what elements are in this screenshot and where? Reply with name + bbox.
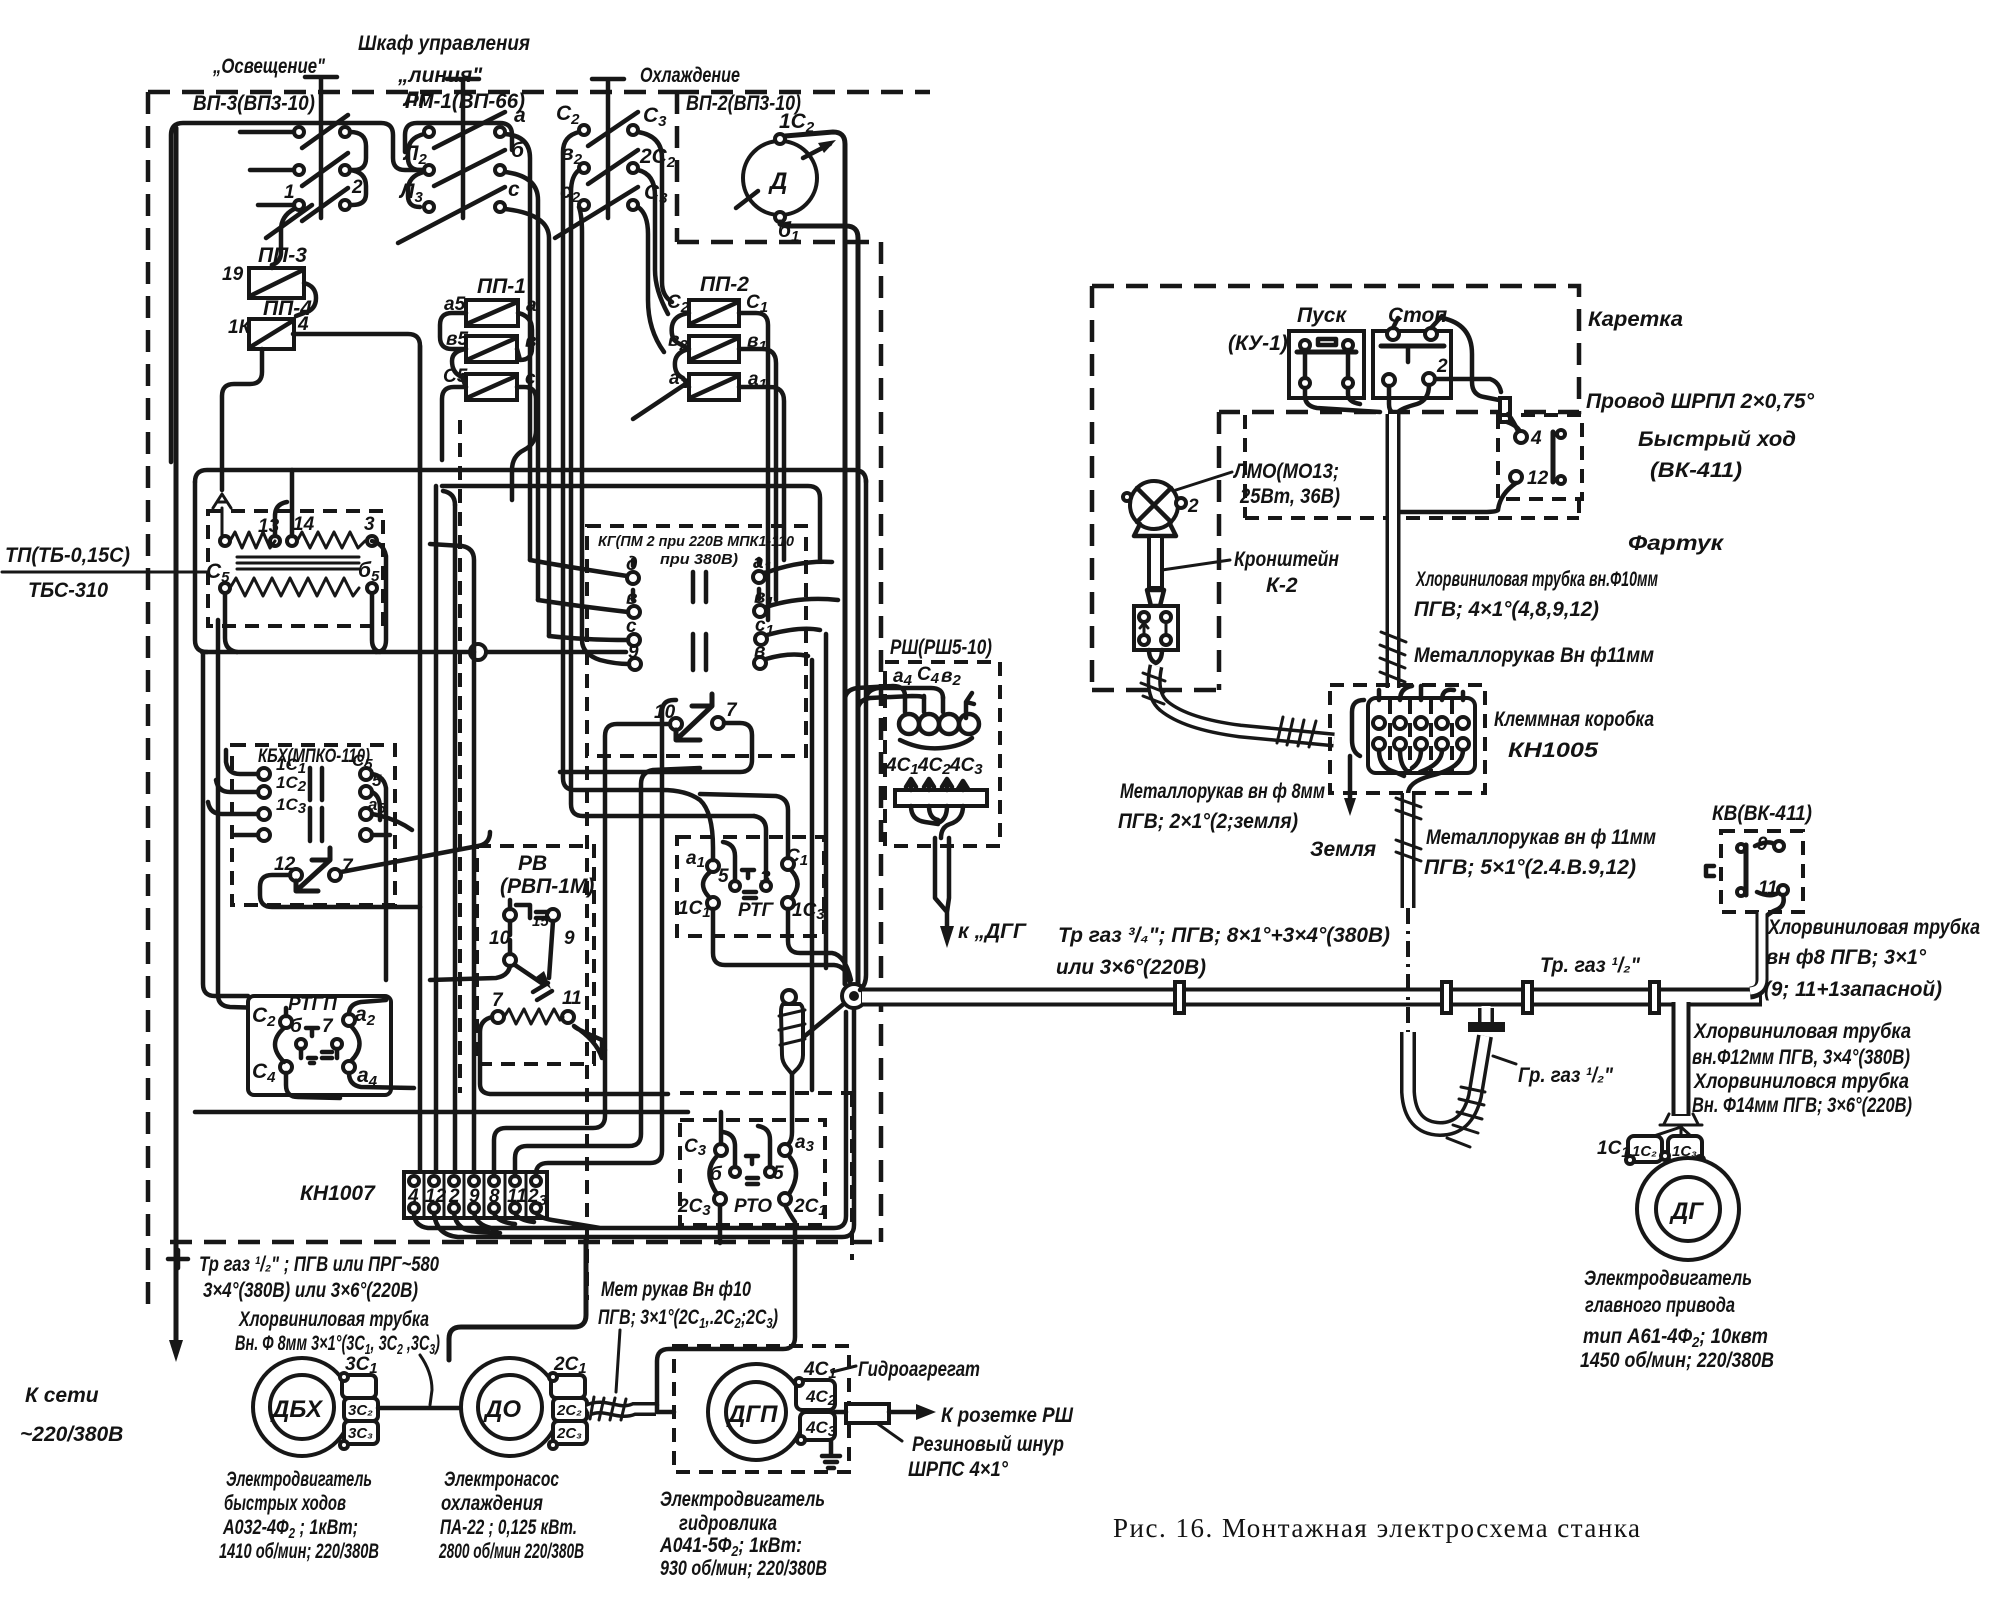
svg-text:Гр. газ ¹/₂": Гр. газ ¹/₂" [1518, 1064, 1614, 1087]
svg-text:2: 2 [448, 1186, 460, 1207]
KG movable bars [693, 572, 706, 670]
wire sw1 right outputs [350, 132, 366, 205]
svg-text:ПГВ; 5×1°(2.4.В.9,12): ПГВ; 5×1°(2.4.В.9,12) [1424, 856, 1636, 879]
svg-text:Хлорвиниловая трубка вн.Ф10мм: Хлорвиниловая трубка вн.Ф10мм [1415, 568, 1658, 591]
svg-text:вн ф8 ПГВ; 3×1°: вн ф8 ПГВ; 3×1° [1766, 946, 1927, 969]
svg-text:в1: в1 [747, 331, 767, 355]
tube stub to pipe tee [1478, 1008, 1494, 1030]
svg-text:а1: а1 [686, 848, 705, 871]
wires into RSh from left [845, 686, 943, 984]
KBX contact rows [258, 768, 372, 841]
svg-text:К-2: К-2 [1266, 574, 1298, 597]
wire sw3 right outputs down to PP-2 [638, 132, 672, 352]
Zemlya earth wire [1348, 756, 1353, 800]
KG left feed curves [530, 560, 629, 664]
svg-text:Стоп: Стоп [1388, 304, 1447, 327]
svg-text:7: 7 [342, 856, 354, 877]
svg-text:Тр. газ ¹/₂": Тр. газ ¹/₂" [1540, 954, 1641, 977]
wires PP-1 left loops [440, 313, 466, 460]
button Stop [1373, 316, 1451, 398]
svg-text:(КУ-1): (КУ-1) [1228, 332, 1288, 355]
svg-text:19: 19 [222, 264, 244, 285]
DG terminal caps [1626, 1127, 1704, 1164]
svg-text:Быстрый ход: Быстрый ход [1638, 428, 1796, 451]
D arrow [803, 144, 830, 158]
sw1 left stubs [240, 132, 294, 205]
terminal box KN1005 dashed [1330, 685, 1485, 793]
svg-text:гидровлика: гидровлика [679, 1512, 777, 1535]
relay RTG box [677, 837, 824, 936]
corridor verticals B top hooks [430, 491, 474, 652]
svg-text:а3: а3 [795, 1132, 815, 1155]
switch SW1 row2 [294, 153, 350, 186]
horizontal bus y652 with node [202, 650, 626, 655]
svg-text:Пуск: Пуск [1297, 304, 1347, 327]
svg-text:а: а [526, 295, 537, 316]
motor DBX [253, 1358, 378, 1456]
wires PP-2 right outputs down [739, 313, 784, 620]
dashed partition x=460 (control cabinet inner) [460, 420, 587, 1300]
fuse PP-1 v [466, 336, 517, 362]
RV resistor 7-11 [492, 988, 582, 1024]
button Pusk [1289, 331, 1364, 398]
svg-text:2: 2 [351, 177, 363, 198]
wire sw2 outputs right going down [505, 134, 549, 636]
svg-text:Рис. 16. Монтажная электросхем: Рис. 16. Монтажная электросхема станка [1113, 1513, 1642, 1543]
connector small [1500, 398, 1510, 422]
wires buttons down to tube [1305, 385, 1429, 412]
tube KV down to pipe [1750, 914, 1762, 993]
leader from tube text to wire [420, 1355, 432, 1405]
svg-text:Тр газ ³/₄"; ПГВ; 8×1°+3×4°(38: Тр газ ³/₄"; ПГВ; 8×1°+3×4°(380В) [1058, 924, 1390, 947]
svg-text:„Освещение": „Освещение" [212, 55, 326, 78]
carriage (Karetka) dashed box [1092, 286, 1579, 690]
svg-text:КГ(ПМ 2 при 220В МПК1-110: КГ(ПМ 2 при 220В МПК1-110 [598, 533, 795, 550]
svg-text:3С1: 3С1 [345, 1354, 378, 1377]
svg-text:25Вт, 36В): 25Вт, 36В) [1239, 485, 1340, 508]
svg-text:Вн. Ф 8мм 3×1°(3С1, 3С2 ,3С3): Вн. Ф 8мм 3×1°(3С1, 3С2 ,3С3) [235, 1332, 440, 1358]
svg-text:~220/380В: ~220/380В [20, 1423, 123, 1446]
switch SW2 row2 [424, 150, 505, 186]
svg-text:КН1005: КН1005 [1508, 739, 1598, 762]
svg-text:а1: а1 [748, 369, 767, 393]
svg-text:б5: б5 [358, 559, 380, 585]
wire D top to long vertical [785, 132, 845, 984]
motor DG [1637, 1158, 1739, 1260]
main pipe horizontal [861, 988, 1762, 1007]
svg-text:Металлорукав Вн ф11мм: Металлорукав Вн ф11мм [1414, 644, 1654, 667]
svg-text:Каретка: Каретка [1588, 308, 1683, 331]
svg-text:Вн. Ф14мм ПГВ; 3×6°(220В): Вн. Ф14мм ПГВ; 3×6°(220В) [1692, 1094, 1912, 1117]
leader Kronstein [1162, 560, 1230, 570]
D slash [736, 191, 758, 208]
svg-text:Электронасос: Электронасос [444, 1468, 559, 1491]
KG contact row v-v1 [628, 605, 766, 618]
svg-text:д: д [626, 554, 638, 575]
KN1007 bottom fan-out [414, 1010, 854, 1237]
switch group 1 pole bar [305, 77, 337, 218]
svg-text:РШ(РШ5-10): РШ(РШ5-10) [890, 636, 992, 659]
dashed partition near RSh [680, 1093, 852, 1260]
svg-text:4: 4 [407, 1186, 419, 1207]
svg-text:Охлаждение: Охлаждение [640, 64, 740, 87]
svg-text:Резиновый шнур: Резиновый шнур [912, 1433, 1064, 1456]
svg-text:9: 9 [564, 928, 575, 949]
contactor KBX dashed box [232, 745, 395, 905]
svg-text:С4: С4 [917, 664, 940, 687]
svg-text:1С1: 1С1 [1597, 1138, 1630, 1161]
svg-text:ПП-3: ПП-3 [258, 244, 307, 267]
svg-text:14: 14 [293, 514, 315, 535]
svg-text:РТО: РТО [734, 1196, 772, 1217]
svg-text:С5: С5 [352, 751, 373, 773]
switch SW1 row1 [294, 115, 350, 148]
cable gland below pipe [779, 990, 846, 1145]
RTO wires [657, 1112, 795, 1405]
svg-text:С3: С3 [684, 1136, 707, 1159]
terminal block KN1007 [404, 1172, 548, 1218]
wire hose to riser [657, 1405, 674, 1412]
svg-text:Электродвигатель: Электродвигатель [1584, 1267, 1752, 1290]
cabinet outer dashed border (left block) [148, 92, 881, 1308]
KBX right hooks [372, 774, 412, 980]
svg-text:3С₂: 3С₂ [348, 1402, 373, 1419]
svg-text:4С2: 4С2 [917, 755, 951, 778]
svg-text:1К: 1К [228, 317, 252, 338]
SEC4 [1092, 286, 1980, 1372]
svg-text:Металлорукав вн ф 11мм: Металлорукав вн ф 11мм [1426, 826, 1656, 849]
SEC1 [2, 110, 866, 1145]
svg-text:с: с [626, 616, 637, 637]
svg-text:ДО: ДО [483, 1396, 521, 1423]
svg-text:Лм: Лм [402, 88, 434, 111]
svg-text:к „ДГГ: к „ДГГ [958, 920, 1027, 943]
svg-text:ПГВ; 2×1°(2;земля): ПГВ; 2×1°(2;земля) [1118, 810, 1298, 833]
wire PP3 to PP4 [272, 265, 316, 316]
leader Gr gaz [1493, 1056, 1516, 1064]
svg-text:ПП-2: ПП-2 [700, 273, 749, 296]
left border vertical wire K seti [174, 128, 179, 1342]
horizontal bus y470 [195, 470, 866, 482]
svg-text:3С₃: 3С₃ [348, 1425, 373, 1442]
fuse PP-2 v [689, 336, 739, 362]
switch SW3 row2 [579, 150, 638, 184]
svg-text:Шкаф управления: Шкаф управления [358, 32, 530, 55]
KBX aux Z contact [274, 848, 354, 891]
transformer earth [213, 494, 231, 541]
KG contact row c-c1 [628, 633, 767, 646]
svg-text:К сети: К сети [25, 1384, 99, 1407]
motor D circle [743, 141, 817, 215]
hose KN1005 down [1401, 793, 1416, 908]
transformer core [237, 557, 359, 569]
DGP earth [822, 1440, 840, 1468]
svg-text:Тр газ ¹/₂" ; ПГВ или ПРГ~580: Тр газ ¹/₂" ; ПГВ или ПРГ~580 [199, 1253, 439, 1276]
KN1005 bottom merge [1379, 750, 1463, 794]
svg-text:2С2: 2С2 [639, 145, 676, 171]
svg-text:(РВП-1М): (РВП-1М) [500, 875, 594, 898]
RV lower contact [504, 921, 553, 1000]
svg-text:С2: С2 [556, 102, 580, 128]
svg-text:Земля: Земля [1310, 838, 1376, 861]
svg-text:10: 10 [489, 928, 511, 949]
corridor verticals A [420, 346, 474, 1172]
RTG wires down [713, 909, 851, 982]
motor DGP [708, 1364, 837, 1460]
transformer TP dashed box [208, 511, 383, 626]
svg-text:Хлорвиниловся трубка: Хлорвиниловся трубка [1693, 1070, 1909, 1093]
KG Z wires [560, 723, 752, 1050]
svg-text:быстрых ходов: быстрых ходов [224, 1492, 346, 1515]
svg-text:Электродвигатель: Электродвигатель [660, 1488, 825, 1511]
svg-text:ШРПС 4×1°: ШРПС 4×1° [908, 1458, 1009, 1481]
svg-text:3: 3 [364, 514, 375, 535]
dashed box VP-2 (cooling switch enclosure) [677, 92, 930, 1242]
svg-text:Кронштейн: Кронштейн [1234, 548, 1339, 571]
lamp LMO [1123, 481, 1186, 663]
DG flare fitting [1660, 1114, 1702, 1125]
svg-text:ПА-22 ; 0,125 кВт.: ПА-22 ; 0,125 кВт. [440, 1516, 577, 1539]
inner rounded box around lighting switch [171, 123, 424, 462]
svg-text:„линия": „линия" [397, 64, 483, 87]
svg-text:2: 2 [1187, 496, 1199, 517]
svg-text:Провод ШРПЛ 2×0,75°: Провод ШРПЛ 2×0,75° [1586, 390, 1815, 413]
svg-text:2С₃: 2С₃ [556, 1425, 582, 1442]
wires PP-1 right outputs [512, 313, 536, 500]
fuse PP-2 a [689, 374, 739, 400]
svg-text:Хлорвиниловая трубка: Хлорвиниловая трубка [238, 1308, 429, 1331]
svg-text:Металлорукав вн ф 8мм: Металлорукав вн ф 8мм [1120, 780, 1325, 803]
svg-text:ПП-1: ПП-1 [477, 275, 526, 298]
SEC3 [20, 636, 1762, 1580]
junction node [842, 984, 866, 1008]
svg-text:9: 9 [1757, 834, 1768, 855]
svg-text:2С3: 2С3 [677, 1196, 711, 1219]
RSh plug lead to DGG [935, 838, 949, 928]
svg-text:Хлорвиниловая трубка: Хлорвиниловая трубка [1767, 916, 1980, 939]
tube Karetka to KN1005 [1386, 414, 1401, 688]
transformer secondary winding [220, 578, 377, 596]
svg-text:12: 12 [274, 854, 296, 875]
svg-text:ТБС-310: ТБС-310 [28, 579, 108, 602]
KG contact row 9-v [629, 657, 766, 670]
wire sw2 left hooks [408, 134, 424, 207]
svg-text:охлаждения: охлаждения [441, 1492, 543, 1515]
transformer primary winding [220, 532, 377, 548]
svg-text:ДГ: ДГ [1669, 1198, 1704, 1225]
svg-text:Мет рукав Вн ф10: Мет рукав Вн ф10 [601, 1278, 751, 1301]
KG contact row d-a1 [627, 559, 765, 600]
svg-text:вн.Ф12мм ПГВ, 3×4°(380В): вн.Ф12мм ПГВ, 3×4°(380В) [1692, 1046, 1910, 1069]
SEC2 [168, 128, 866, 1405]
wire PP4 down to transformer [222, 349, 262, 490]
svg-text:1С3: 1С3 [792, 900, 825, 923]
vertical from bus470 left [195, 482, 207, 652]
svg-text:ВП-3(ВП3-10): ВП-3(ВП3-10) [193, 92, 315, 115]
svg-text:Гидроагрегат: Гидроагрегат [858, 1358, 980, 1381]
wire sw1 row3 to PP-3 [272, 209, 294, 265]
svg-text:при 380В): при 380В) [660, 551, 738, 568]
switch SW3 row3 [555, 187, 638, 238]
svg-text:2С1: 2С1 [793, 1196, 827, 1219]
svg-text:Хлорвиниловая трубка: Хлорвиниловая трубка [1693, 1020, 1911, 1043]
vertical 586 conduit to DO [449, 1237, 586, 1360]
svg-text:2: 2 [1436, 356, 1448, 377]
svg-text:Д: Д [768, 168, 787, 195]
svg-text:1450 об/мин; 220/380В: 1450 об/мин; 220/380В [1580, 1349, 1774, 1372]
KBX Z wires [260, 832, 490, 907]
svg-text:9: 9 [469, 1186, 480, 1207]
fuse PP-1 a [466, 300, 518, 326]
svg-text:ЛМО(МО13;: ЛМО(МО13; [1232, 460, 1339, 483]
switch group 3 pole bar [592, 79, 624, 218]
svg-text:РТГ: РТГ [738, 900, 775, 921]
socket RSh dashed box [885, 662, 1000, 846]
motor DGP dashed box [674, 1346, 849, 1472]
leader LMO text [1176, 472, 1232, 490]
svg-text:КВ(ВК-411): КВ(ВК-411) [1712, 802, 1812, 825]
dash-dot to pipe [1406, 908, 1410, 1032]
svg-text:11: 11 [507, 1186, 527, 1207]
svg-text:2С1: 2С1 [553, 1354, 587, 1377]
svg-text:ДГП: ДГП [726, 1401, 778, 1428]
svg-text:9: 9 [628, 642, 639, 663]
svg-text:РВ: РВ [518, 852, 547, 875]
svg-text:Клеммная коробка: Клеммная коробка [1494, 708, 1654, 731]
fuse PP-2 c [689, 300, 739, 326]
pipe couplings [1175, 982, 1659, 1013]
long vertical from bus470 [860, 480, 866, 990]
KG right output curves [765, 562, 838, 659]
RSh upper socket [899, 693, 979, 748]
left column verticals [203, 652, 248, 996]
relay RTO dashed box [680, 1120, 825, 1225]
svg-text:А032-4Ф2 ; 1кВт;: А032-4Ф2 ; 1кВт; [222, 1516, 358, 1542]
wire DBX to DO [378, 1406, 461, 1411]
svg-text:в2: в2 [941, 666, 961, 689]
svg-text:15: 15 [532, 913, 549, 930]
relay RV dashed box [477, 846, 594, 1064]
svg-text:с: с [508, 178, 520, 201]
switch SW3 row1 [579, 112, 638, 146]
svg-text:8: 8 [489, 1186, 500, 1207]
switch SW2 row1 [424, 112, 505, 148]
hose DO to DGP [588, 1407, 656, 1411]
RV wires [430, 966, 668, 1094]
svg-text:3×4°(380В) или 3×6°(220В): 3×4°(380В) или 3×6°(220В) [203, 1279, 418, 1302]
inner box segment over sw2 [405, 123, 512, 152]
DGP plug and arrow K rozetke [846, 1404, 889, 1423]
wire sw3 left hooks down [563, 132, 754, 816]
RTG wires up [662, 790, 788, 881]
KN1005 terminal strip [1352, 686, 1475, 773]
switch group 2 pole bar [447, 79, 479, 218]
svg-text:С3: С3 [643, 104, 667, 130]
svg-text:2С₂: 2С₂ [556, 1402, 582, 1419]
fast-travel switch dashed box [1498, 415, 1582, 499]
svg-text:в: в [626, 588, 637, 609]
svg-text:КН1007: КН1007 [300, 1182, 376, 1205]
svg-text:тип А61-4Ф2; 10квт: тип А61-4Ф2; 10квт [1583, 1325, 1768, 1351]
svg-text:ПГВ; 4×1°(4,8,9,12): ПГВ; 4×1°(4,8,9,12) [1414, 598, 1599, 621]
svg-text:2800 об/мин 220/380В: 2800 об/мин 220/380В [438, 1540, 584, 1563]
leader Gidroagregat [832, 1366, 856, 1372]
svg-text:РТГП: РТГП [288, 994, 337, 1015]
slash at PP-2 a2 [633, 383, 687, 419]
wire Stop top to Fartuk connector [1435, 318, 1501, 400]
switch SW1 row3 [266, 188, 350, 238]
horizontal bus y486 [442, 486, 820, 560]
svg-text:11: 11 [1758, 878, 1778, 899]
pipe branch down to DG [1672, 1002, 1691, 1116]
KG aux contact Z [654, 694, 738, 740]
svg-text:главного привода: главного привода [1585, 1294, 1735, 1317]
fuse PP-3 [249, 268, 304, 298]
relay RTGP box [248, 996, 391, 1095]
svg-text:ТП(ТБ-0,15С): ТП(ТБ-0,15С) [5, 544, 130, 567]
fuse PP-4 [249, 319, 294, 349]
RV top contact [489, 900, 575, 949]
switch SW2 row3 [398, 187, 505, 243]
RSh lower socket [895, 779, 987, 838]
wire D bottom to long vertical [780, 222, 858, 984]
svg-text:930 об/мин; 220/380В: 930 об/мин; 220/380В [660, 1557, 827, 1580]
svg-text:С5: С5 [206, 560, 230, 586]
svg-text:(ВК-411): (ВК-411) [1650, 459, 1742, 482]
svg-text:Электродвигатель: Электродвигатель [226, 1468, 372, 1491]
horizontal bus y1112 [195, 1110, 688, 1115]
SEC5 [1113, 1513, 1642, 1543]
fuse PP-1 c [466, 374, 517, 400]
U-hose under pipe [1408, 1032, 1485, 1129]
svg-text:Фартук: Фартук [1628, 532, 1725, 555]
svg-text:1: 1 [284, 182, 295, 203]
svg-text:4С3: 4С3 [949, 755, 983, 778]
motor DO [461, 1358, 587, 1456]
RTGP wires [286, 1000, 414, 1098]
svg-text:К розетке РШ: К розетке РШ [941, 1404, 1073, 1427]
svg-text:4: 4 [1530, 428, 1542, 449]
wire PP4 output right [293, 334, 420, 470]
svg-text:4С1: 4С1 [885, 755, 919, 778]
svg-text:12: 12 [1527, 468, 1549, 489]
transformer wires [225, 470, 386, 652]
svg-text:ДБХ: ДБХ [270, 1396, 324, 1423]
svg-text:1410 об/мин; 220/380В: 1410 об/мин; 220/380В [219, 1540, 379, 1563]
svg-text:1С₂: 1С₂ [1632, 1143, 1657, 1160]
svg-text:4С1: 4С1 [803, 1359, 837, 1382]
contactor KG dashed box [587, 526, 806, 756]
hose lamp to KN1005 [1154, 666, 1334, 740]
svg-text:7: 7 [726, 700, 738, 721]
wires PP-2 left loops [672, 313, 689, 387]
limit switch KV dashed box [1721, 831, 1803, 912]
svg-text:а: а [514, 104, 526, 127]
svg-text:11: 11 [562, 988, 582, 1009]
right side verticals [812, 634, 826, 1090]
svg-text:7: 7 [492, 990, 504, 1011]
svg-text:или 3×6°(220В): или 3×6°(220В) [1056, 956, 1206, 979]
svg-text:1С3: 1С3 [276, 795, 307, 817]
KN1007 feeder jogs [494, 700, 700, 1176]
svg-text:ПГВ; 3×1°(2С1,.2С2;2С3): ПГВ; 3×1°(2С1,.2С2;2С3) [598, 1306, 778, 1332]
svg-text:7: 7 [322, 1016, 334, 1037]
svg-text:(9; 11+1запасной): (9; 11+1запасной) [1764, 978, 1942, 1001]
svg-text:12: 12 [425, 1186, 447, 1207]
KBX left hooks [208, 750, 258, 835]
